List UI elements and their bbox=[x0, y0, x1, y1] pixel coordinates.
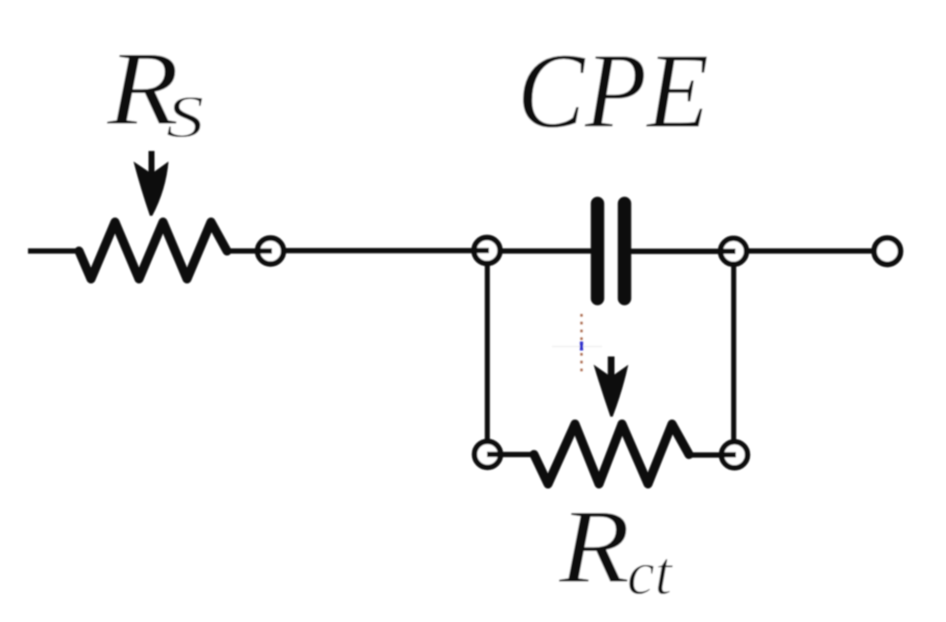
node C stub bbox=[721, 249, 736, 254]
svg-text:S: S bbox=[166, 84, 204, 150]
svg-text:R: R bbox=[558, 488, 630, 605]
output terminal circle bbox=[874, 238, 900, 264]
wire left lead bbox=[28, 248, 79, 253]
wire R_ct to node E bbox=[689, 452, 722, 457]
node E junction circle bbox=[722, 442, 748, 468]
capacitor CPE right plate bbox=[618, 204, 631, 299]
node A terminal circle bbox=[258, 238, 284, 264]
resistor R_S bbox=[79, 222, 227, 279]
node D junction circle bbox=[475, 441, 501, 467]
cursor artifact dotted line bbox=[580, 314, 582, 374]
wire node C down to node E bbox=[731, 264, 736, 443]
node C junction circle bbox=[721, 238, 747, 264]
svg-text:ct: ct bbox=[627, 540, 674, 608]
node A stub bbox=[258, 248, 272, 253]
wire node B down to node D bbox=[485, 263, 490, 443]
cursor artifact faint line bbox=[552, 346, 602, 348]
arrow to R_ct bbox=[594, 357, 629, 417]
wire node A to node B bbox=[283, 248, 475, 253]
cursor artifact blue segment bbox=[580, 342, 583, 351]
arrow to R_S bbox=[134, 151, 169, 216]
node E stub bbox=[722, 452, 736, 457]
wire node B to CPE bbox=[500, 248, 592, 253]
resistor R_ct bbox=[534, 424, 689, 484]
node D stub bbox=[487, 452, 501, 457]
wire R_S to node A bbox=[227, 248, 259, 253]
wire CPE to node C bbox=[631, 249, 721, 254]
wire node D to R_ct bbox=[500, 452, 534, 457]
svg-text:CPE: CPE bbox=[517, 32, 709, 151]
node B stub bbox=[475, 248, 490, 253]
wire node C to output terminal bbox=[746, 248, 874, 253]
capacitor CPE left plate bbox=[591, 204, 604, 299]
node B junction circle bbox=[474, 238, 500, 264]
